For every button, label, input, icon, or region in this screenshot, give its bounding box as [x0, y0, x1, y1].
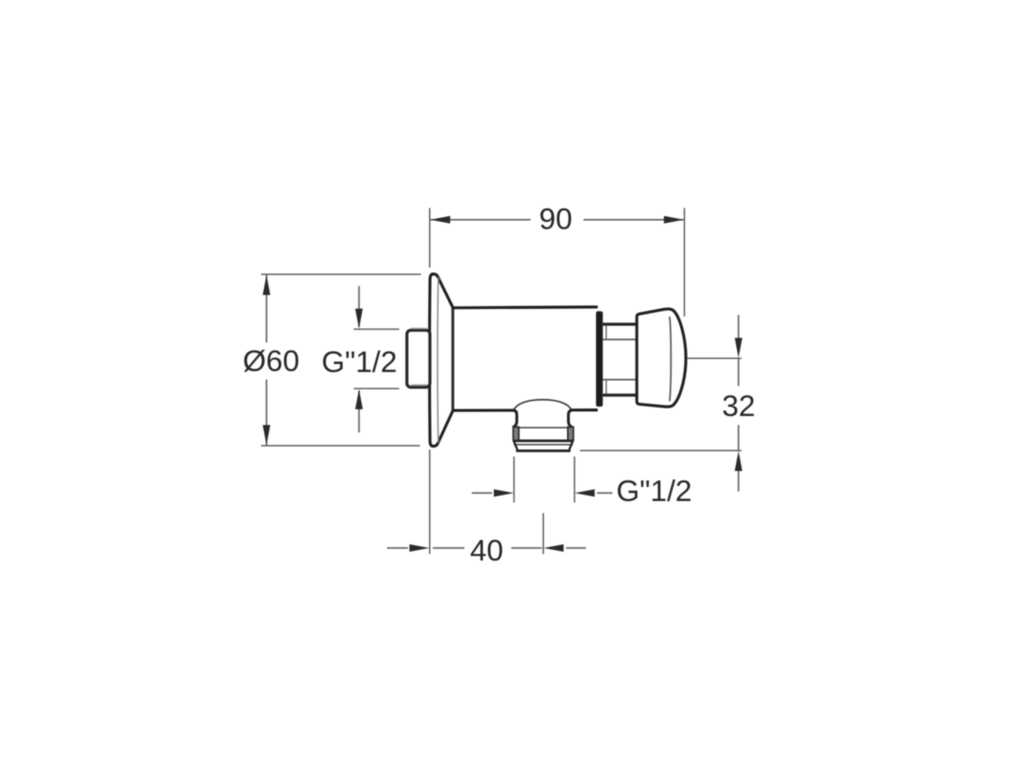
neck collar [603, 324, 637, 395]
outlet dim left extension line [513, 457, 515, 503]
svg-text:Ø60: Ø60 [243, 345, 300, 378]
dim O60 line top [266, 275, 268, 445]
dim 90 right extension line [683, 208, 685, 317]
svg-text:32: 32 [722, 390, 755, 423]
dim 32 middle line segments [738, 358, 740, 450]
dim 90 line right [584, 219, 684, 221]
dim 90 left extension line [429, 208, 431, 268]
dim O60 top extension line [261, 273, 421, 275]
inlet thread dim lower tick [354, 388, 400, 390]
inlet thread dim upper tick [354, 328, 400, 330]
valve body [454, 307, 597, 410]
svg-text:90: 90 [539, 203, 572, 236]
inlet thread dim upper line+arrow [358, 286, 360, 327]
dim 40 right line [511, 547, 542, 549]
dim 32 bottom extension line (from outlet) [580, 450, 742, 452]
outlet thread G1/2 [514, 441, 573, 451]
dim 32 upper line+arrow [738, 315, 740, 341]
svg-text:G"1/2: G"1/2 [616, 475, 692, 508]
inlet thread dim lower line+arrow [358, 391, 360, 433]
inlet thread G1/2 [407, 329, 430, 388]
dim 40 left line+arrow [387, 547, 408, 549]
dim 40 left extension line (wall line) [429, 450, 431, 555]
outlet dim right line+arrow [597, 492, 612, 494]
dim O60 down arrow [263, 425, 271, 445]
dim O60 up arrow [263, 275, 271, 295]
dim 32 lower line+arrow [738, 468, 740, 492]
outlet waist [514, 410, 572, 427]
dim O60 bottom extension line [261, 445, 420, 447]
bonnet dark ring [596, 311, 603, 406]
dim 40 centre tick [542, 513, 544, 554]
svg-text:G"1/2: G"1/2 [322, 346, 398, 379]
dim 90 left arrow [430, 216, 450, 224]
dim 90 line left [431, 219, 531, 221]
outlet dim left line+arrow [472, 492, 492, 494]
push button cap [637, 309, 686, 407]
cone base edge [451, 308, 454, 411]
outlet collar [513, 427, 573, 441]
dim 32 top extension line (from cap apex) [688, 357, 742, 359]
dim 40 right arrow [544, 544, 564, 552]
outlet dome [514, 400, 572, 411]
dim 90 right arrow [664, 216, 684, 224]
svg-text:40: 40 [470, 535, 503, 568]
dim 40 middle line [433, 547, 465, 549]
wall flange (rosette) [430, 274, 453, 446]
dim 40 right tail [566, 547, 586, 549]
flange plate inner edge [437, 278, 440, 442]
outlet dim right extension line [574, 457, 576, 503]
